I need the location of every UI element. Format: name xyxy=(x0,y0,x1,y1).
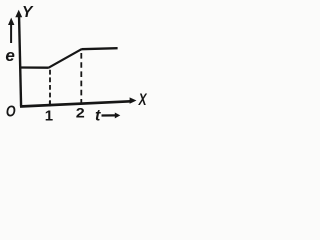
svg-text:t: t xyxy=(95,108,101,125)
y-axis arrowhead xyxy=(15,10,22,17)
curve segment 3: upper horizontal xyxy=(81,48,117,49)
dashed line at t=1 xyxy=(49,70,51,105)
svg-text:Y: Y xyxy=(22,4,34,21)
tick at t=1 xyxy=(49,101,51,106)
t arrow xyxy=(102,114,116,116)
svg-text:e: e xyxy=(5,46,14,65)
x-axis xyxy=(20,101,131,106)
curve segment 2: rising ramp xyxy=(49,49,82,67)
curve segment 1: horizontal at level e xyxy=(20,66,49,68)
svg-text:X: X xyxy=(138,91,148,109)
dashed line at t=2 xyxy=(80,53,82,103)
x-axis arrowhead xyxy=(130,97,137,103)
y-axis xyxy=(19,14,21,107)
svg-text:1: 1 xyxy=(45,107,53,124)
svg-text:2: 2 xyxy=(76,107,85,121)
svg-text:O: O xyxy=(6,103,16,121)
e ordinate arrow xyxy=(10,23,12,43)
